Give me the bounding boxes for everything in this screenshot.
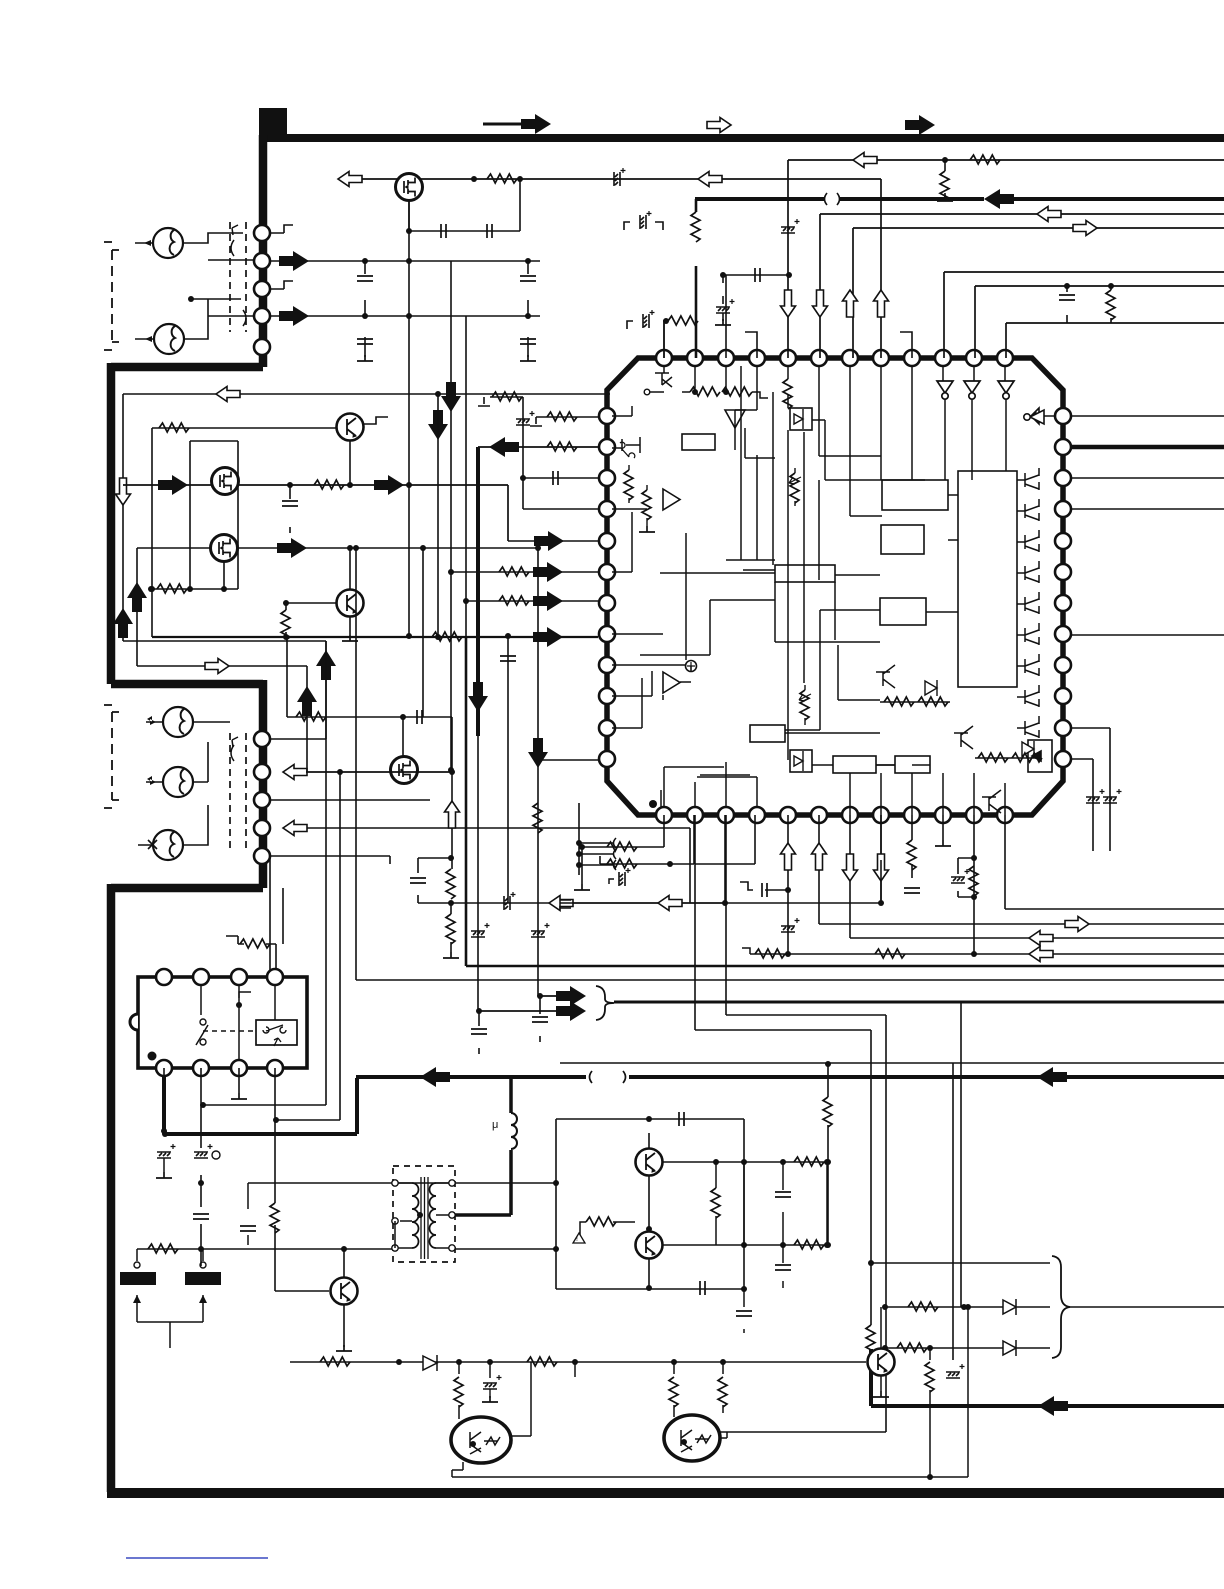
svg-text:!: !: [576, 1236, 578, 1243]
svg-text:μ: μ: [492, 1119, 498, 1131]
